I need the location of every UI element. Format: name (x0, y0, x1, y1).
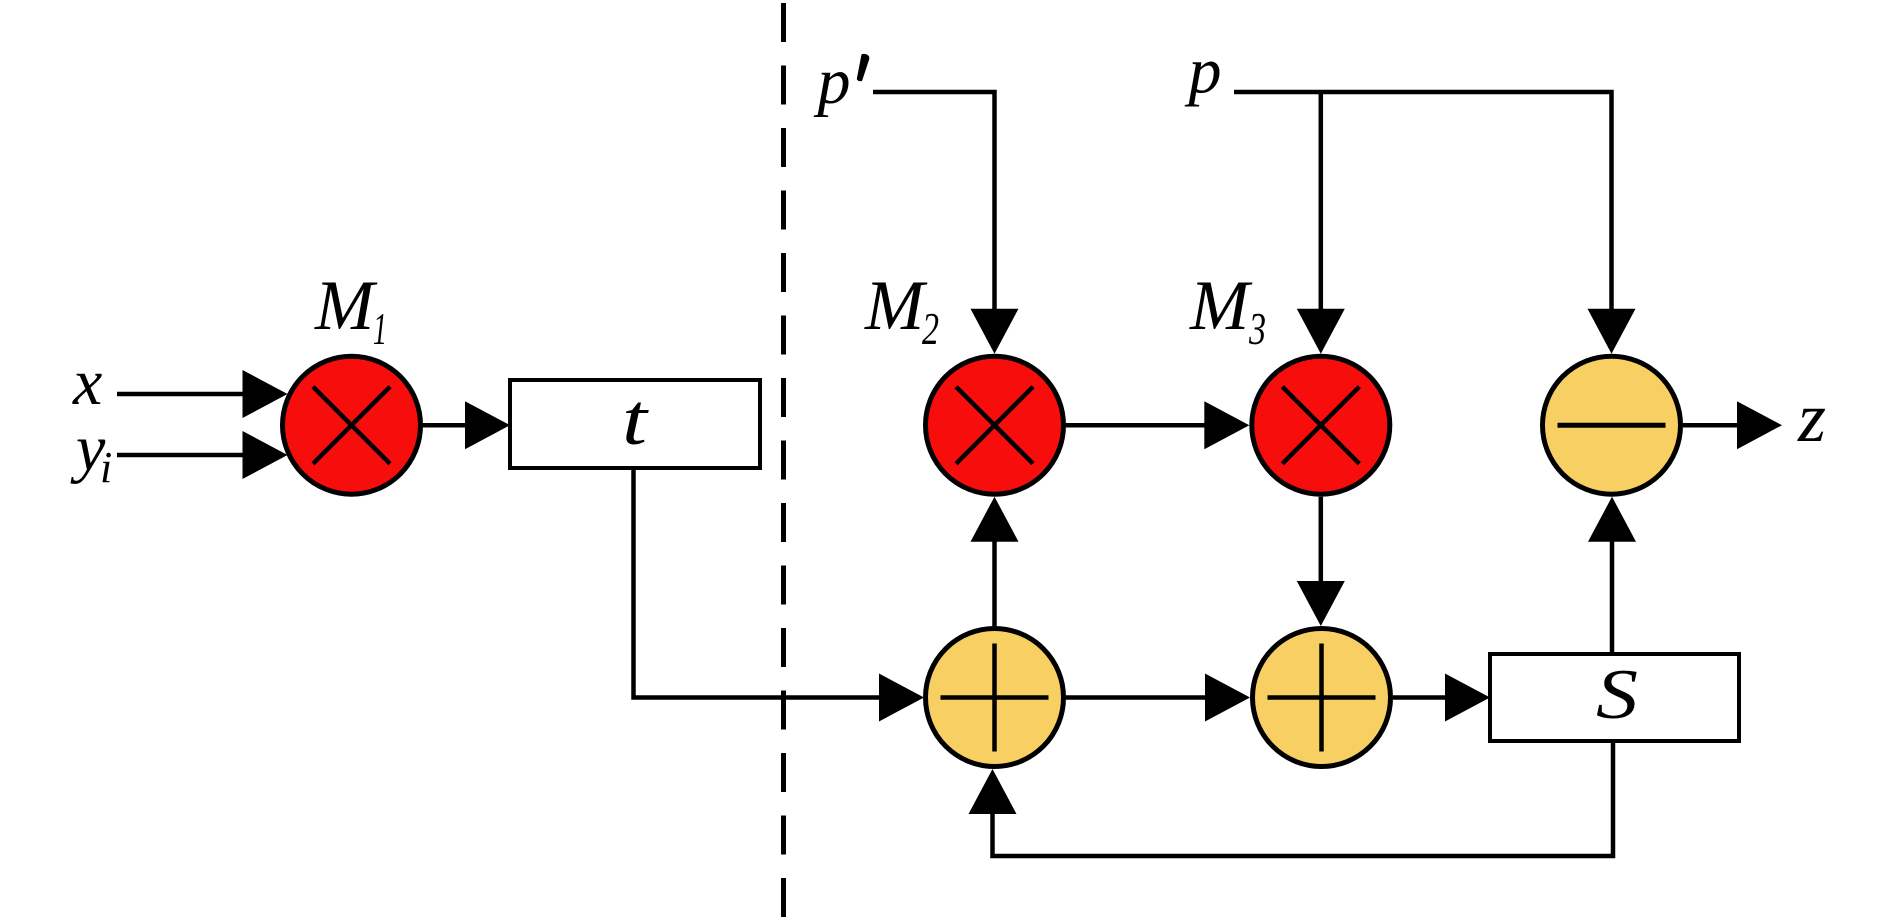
svg-text:x: x (72, 346, 102, 419)
svg-text:1: 1 (373, 303, 387, 354)
multiplier M3 (1252, 356, 1390, 494)
label M1 (314, 267, 387, 354)
svg-text:M: M (314, 267, 378, 345)
wire adder A1 up to M2 (971, 497, 1019, 626)
wire adder A2 to register S (1393, 674, 1490, 722)
wire register S up to subtractor (1588, 497, 1636, 654)
adder A1 (926, 629, 1064, 767)
feedback wire S bottom to adder A1 bottom (969, 741, 1614, 856)
label M3 (1189, 267, 1266, 354)
register S box (1490, 654, 1739, 741)
label M2 (864, 267, 939, 354)
svg-text:S: S (1596, 656, 1638, 734)
wire y_i input to M1 (117, 431, 288, 479)
register t box (510, 380, 760, 468)
label p' (814, 45, 870, 118)
node y_i label (70, 412, 112, 492)
svg-text:i: i (100, 443, 112, 492)
wire p to subtractor (top rail) (1234, 92, 1612, 311)
wire subtractor to z (1683, 401, 1782, 449)
subtractor circle (1543, 356, 1681, 494)
wire x input to M1 (117, 370, 288, 418)
svg-text:2: 2 (922, 303, 939, 354)
wire M1 to register t (420, 401, 510, 449)
wire p' to M2 (873, 92, 1019, 354)
svg-text:t: t (622, 379, 649, 460)
svg-text:M: M (1189, 267, 1253, 345)
svg-text:p: p (1185, 35, 1222, 108)
svg-text:z: z (1797, 380, 1826, 457)
wire p branch down to M3 (1297, 92, 1345, 354)
arrowhead into subtractor top (1588, 309, 1636, 354)
wire t down and across to adder A1 (634, 468, 925, 722)
adder A2 (1253, 629, 1391, 767)
svg-text:3: 3 (1248, 303, 1266, 354)
svg-text:p: p (814, 45, 851, 118)
multiplier M2 (926, 356, 1064, 494)
wire M3 down to adder A2 (1297, 497, 1345, 626)
wire M2 to M3 (1066, 401, 1249, 449)
multiplier M1 (283, 356, 421, 494)
dashed partition line (781, 3, 786, 917)
svg-text:M: M (864, 267, 928, 345)
wire adder A1 to adder A2 (1066, 674, 1250, 722)
